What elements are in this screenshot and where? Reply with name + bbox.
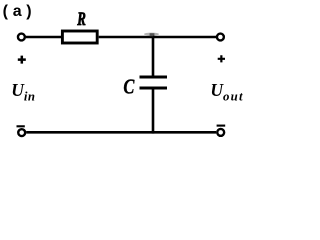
wire: top junction to top-right terminal <box>153 36 216 39</box>
svg-text:a: a <box>13 3 22 20</box>
capacitor C top lead <box>152 37 155 76</box>
svg-text:C: C <box>123 75 135 99</box>
terminal: input − (bottom-left) <box>18 129 25 136</box>
wire: bottom-left terminal to bottom junction <box>26 131 153 134</box>
resistor R <box>62 31 97 43</box>
minus bar above bottom-right terminal <box>217 125 226 127</box>
capacitor C bottom lead <box>152 90 155 133</box>
capacitor C top plate <box>140 76 168 79</box>
node: bottom junction <box>152 131 155 134</box>
terminal: input + (top-left) <box>18 34 25 41</box>
terminal: output − (bottom-right) <box>217 129 224 136</box>
wire: top-left terminal to resistor <box>26 36 62 39</box>
wire: resistor to top junction <box>99 36 153 39</box>
svg-text:(: ( <box>3 3 9 20</box>
capacitor C bottom plate <box>140 87 168 90</box>
plus sign (input side) <box>18 56 26 64</box>
svg-text:): ) <box>26 3 31 20</box>
wire: bottom junction to bottom-right terminal <box>153 131 216 134</box>
terminal: output + (top-right) <box>217 34 224 41</box>
svg-text:R: R <box>77 9 86 30</box>
plus sign (output side) <box>218 55 225 62</box>
node: top junction <box>144 33 159 36</box>
minus bar above bottom-left terminal <box>17 125 25 127</box>
